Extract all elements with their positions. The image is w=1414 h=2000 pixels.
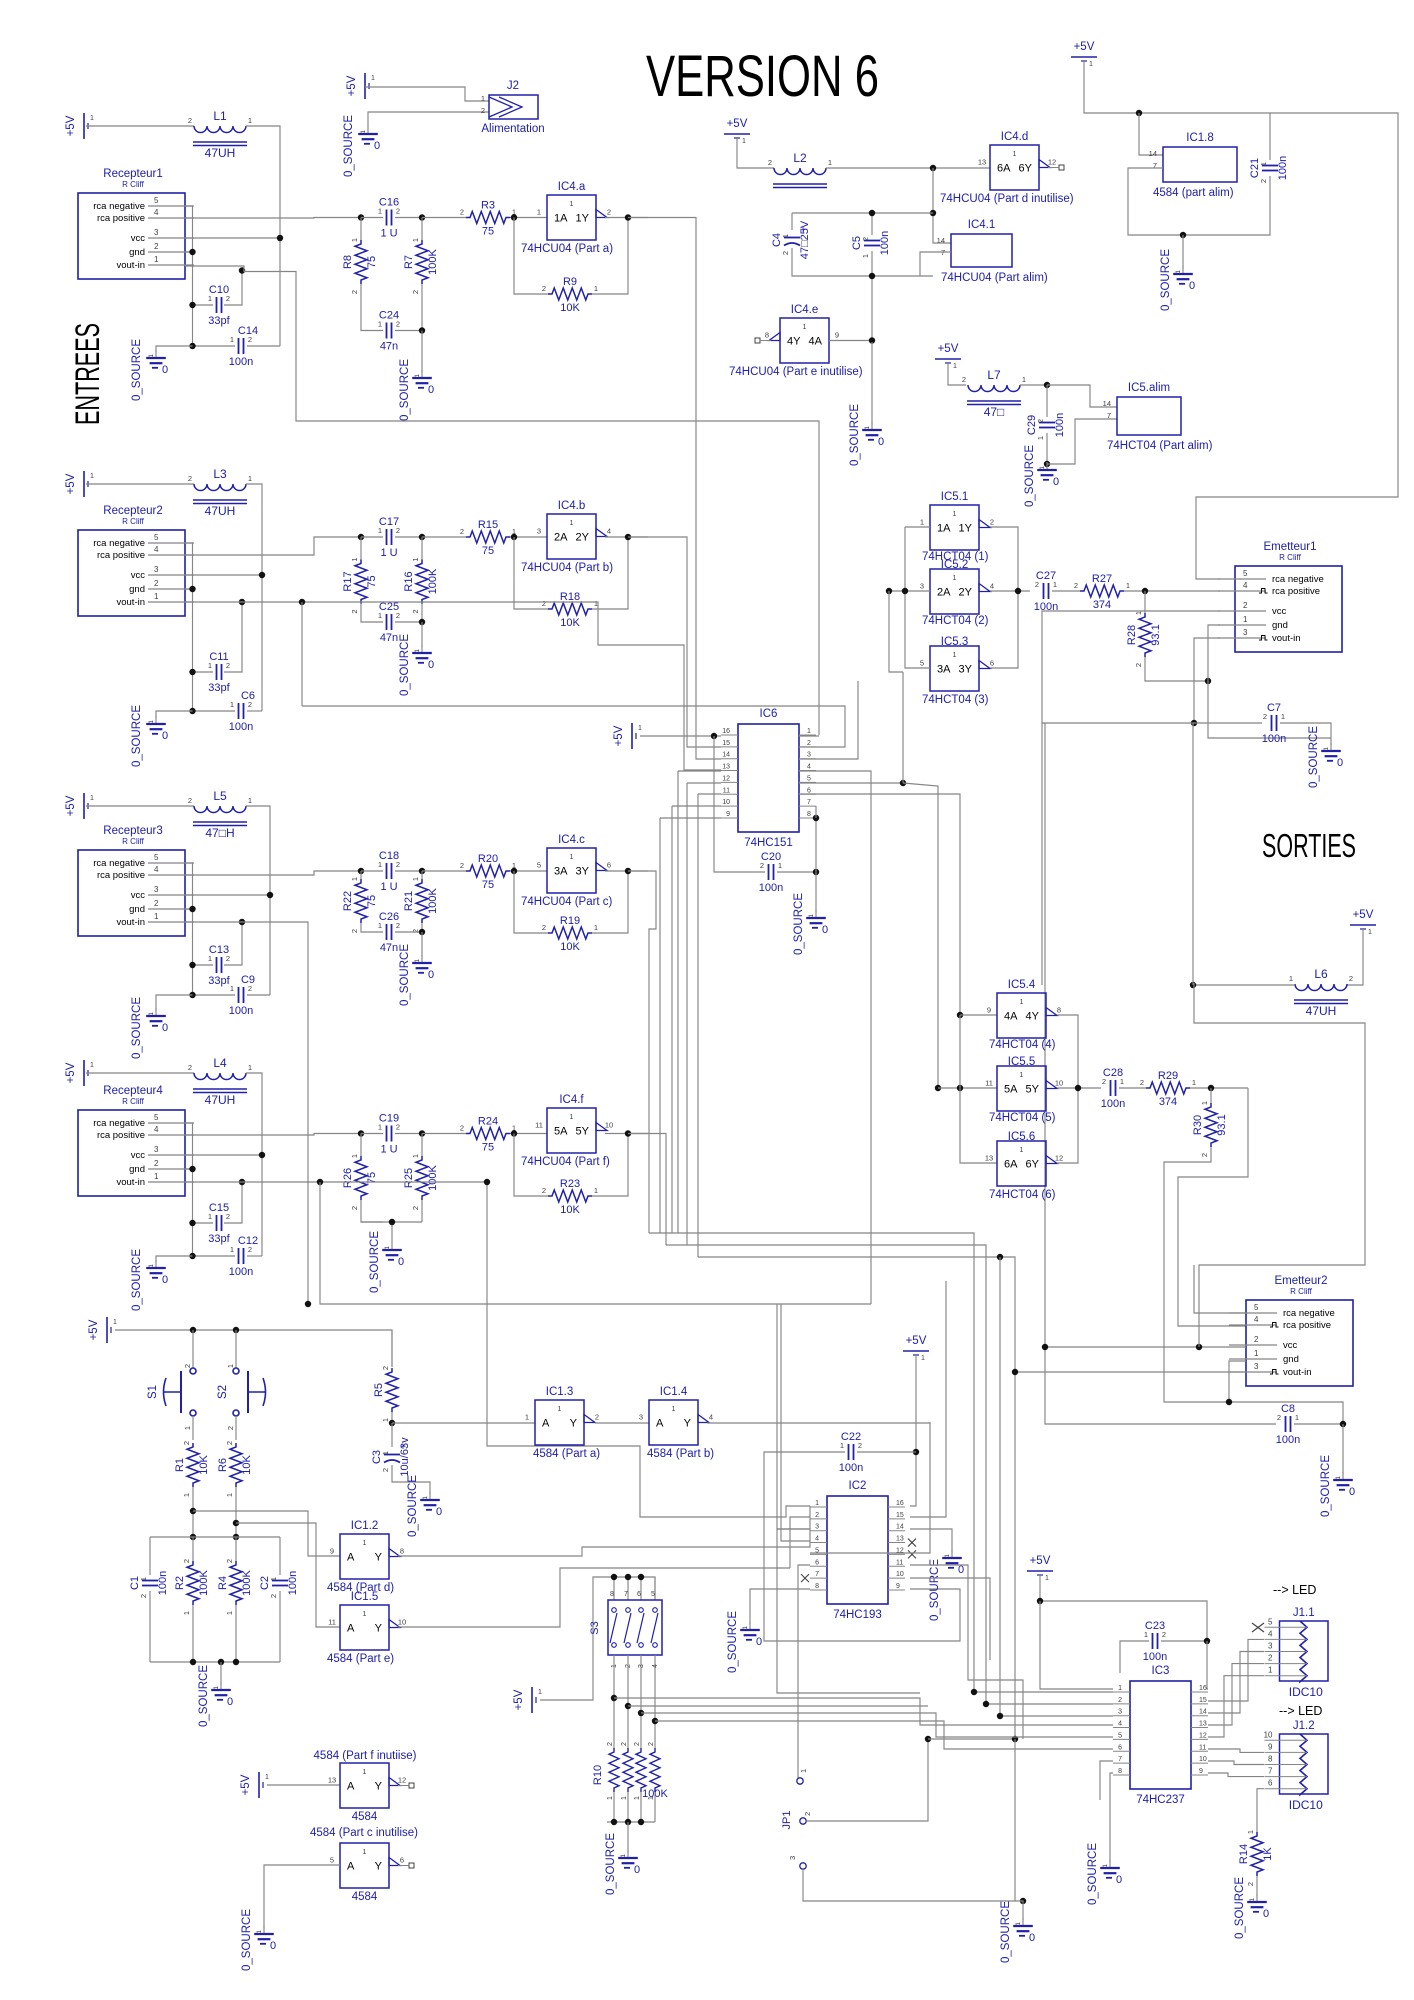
junction C17.1 bbox=[358, 534, 364, 540]
resistor R16 (100K) bbox=[403, 558, 439, 614]
svg-text:1: 1 bbox=[378, 1123, 382, 1132]
wire to ground ch1 bbox=[156, 346, 193, 352]
resistor R25 (100K) bbox=[403, 1154, 439, 1210]
svg-text:J2: J2 bbox=[507, 80, 519, 92]
svg-text:2: 2 bbox=[396, 1123, 400, 1132]
capacitor C17 (1 U) bbox=[378, 516, 400, 559]
resistor R8 (75) bbox=[342, 238, 378, 294]
svg-text:2: 2 bbox=[460, 208, 464, 217]
wire C4 top bbox=[791, 213, 793, 230]
svg-text:8: 8 bbox=[610, 1591, 614, 1598]
wire to ground ch2 bbox=[156, 711, 193, 718]
svg-text:R27: R27 bbox=[1092, 573, 1112, 585]
svg-text:2: 2 bbox=[1036, 419, 1045, 423]
wire top rail bbox=[792, 212, 933, 214]
wire ch4 signal bus bbox=[628, 1134, 666, 1246]
svg-text:100K: 100K bbox=[427, 248, 439, 274]
junction out ch3 bbox=[625, 868, 631, 874]
connector Emetteur2 (R Cliff emitter) bbox=[1229, 1275, 1353, 1386]
svg-text:6A: 6A bbox=[997, 163, 1011, 175]
svg-text:9: 9 bbox=[835, 331, 839, 340]
svg-text:0_SOURCE: 0_SOURCE bbox=[369, 1231, 381, 1293]
svg-text:R6: R6 bbox=[217, 1458, 229, 1472]
junction R28 bbox=[1142, 588, 1148, 594]
ground 0_SOURCE bbox=[399, 944, 434, 1006]
svg-text:2: 2 bbox=[154, 1159, 159, 1168]
junction vout ch1 bbox=[239, 267, 245, 273]
junction R30 bbox=[1208, 1085, 1214, 1091]
wire C22 to +5V bbox=[857, 1451, 916, 1453]
svg-text:6A: 6A bbox=[1004, 1159, 1018, 1171]
svg-text:3: 3 bbox=[807, 752, 811, 759]
svg-text:0_SOURCE: 0_SOURCE bbox=[399, 944, 411, 1006]
svg-text:2: 2 bbox=[1349, 974, 1353, 983]
svg-text:1: 1 bbox=[230, 700, 234, 709]
wire rca negative trunk bbox=[1196, 113, 1398, 579]
junction bbox=[638, 1819, 644, 1825]
svg-text:2: 2 bbox=[460, 527, 464, 536]
capacitor C7 (100n) bbox=[1262, 702, 1286, 745]
wire IC2 pin10 bbox=[910, 1578, 990, 1660]
IC IC1.8 bbox=[1149, 132, 1237, 199]
svg-text:2: 2 bbox=[248, 700, 252, 709]
wire C17 out bbox=[395, 536, 422, 538]
ground 0_SOURCE bbox=[399, 634, 434, 696]
capacitor C24 (47n) bbox=[378, 310, 400, 353]
junction C18.2 bbox=[419, 868, 425, 874]
wire to C12 bbox=[193, 1255, 236, 1257]
svg-text:1: 1 bbox=[1089, 61, 1093, 68]
svg-text:rca positive: rca positive bbox=[97, 870, 145, 881]
svg-text:7: 7 bbox=[624, 1591, 628, 1598]
svg-text:2: 2 bbox=[542, 923, 546, 932]
svg-text:11: 11 bbox=[985, 1079, 993, 1088]
svg-text:Emetteur1: Emetteur1 bbox=[1263, 541, 1316, 553]
gate IC1.2 bbox=[327, 1520, 404, 1594]
junction out ch4 bbox=[625, 1130, 631, 1136]
svg-text:10: 10 bbox=[896, 1571, 904, 1578]
svg-text:gnd: gnd bbox=[129, 584, 145, 595]
wire gnd rail ch4 bbox=[185, 1169, 193, 1256]
svg-text:2: 2 bbox=[381, 1366, 390, 1370]
+5V power bbox=[724, 118, 750, 145]
wire bus C to IC3 pin3 bbox=[1000, 1257, 1113, 1716]
junction C11 bbox=[189, 669, 195, 675]
wire IC3 pin10 to J1.2 pin8 bbox=[1208, 1761, 1264, 1765]
wire gnd rail ch2 bbox=[185, 589, 193, 711]
svg-text:100n: 100n bbox=[1101, 1098, 1125, 1110]
wire to IC1.8 pin14 bbox=[1139, 113, 1163, 155]
svg-text:2: 2 bbox=[154, 242, 159, 251]
svg-text:S2: S2 bbox=[217, 1385, 229, 1399]
svg-text:vout-in: vout-in bbox=[116, 597, 145, 608]
ground 0_SOURCE bbox=[1087, 1843, 1122, 1905]
svg-text:3A: 3A bbox=[937, 664, 951, 676]
inductor L7 (47□) bbox=[962, 368, 1026, 419]
svg-text:47n: 47n bbox=[380, 942, 398, 954]
IC IC6 (74HC151) bbox=[721, 708, 816, 849]
junction IC6 pin16 bbox=[711, 733, 717, 739]
svg-text:6Y: 6Y bbox=[1019, 163, 1033, 175]
svg-text:IC4.1: IC4.1 bbox=[968, 219, 996, 231]
svg-text:3: 3 bbox=[154, 885, 159, 894]
wire +5V to IC6 pin16 bbox=[640, 735, 721, 737]
wire C2 bottom bbox=[279, 1591, 281, 1662]
svg-text:2: 2 bbox=[396, 207, 400, 216]
svg-text:2: 2 bbox=[350, 929, 359, 933]
svg-text:1: 1 bbox=[634, 1796, 641, 1800]
svg-text:1: 1 bbox=[182, 1611, 191, 1615]
gate bbox=[328, 1763, 414, 1823]
svg-text:0: 0 bbox=[428, 384, 434, 396]
junction C5 bottom bbox=[869, 273, 875, 279]
wire C19 out bbox=[395, 1133, 422, 1135]
wire IC5.6 in bracket bbox=[960, 1015, 997, 1163]
wire IC6 pin2 trunk bbox=[302, 706, 845, 747]
svg-text:R28: R28 bbox=[1126, 625, 1138, 645]
wire bus v x678 bbox=[677, 771, 679, 1233]
w bbox=[627, 1792, 629, 1822]
svg-text:R21: R21 bbox=[403, 891, 415, 911]
svg-text:14: 14 bbox=[1149, 149, 1157, 158]
svg-text:5A: 5A bbox=[1004, 1084, 1018, 1096]
w bbox=[192, 1537, 194, 1561]
svg-text:5: 5 bbox=[807, 775, 811, 782]
junction C9 bbox=[189, 992, 195, 998]
wire IC6 pin9 bbox=[660, 817, 721, 819]
junction out ch2 bbox=[625, 534, 631, 540]
junction vout ch3 bbox=[239, 919, 245, 925]
svg-text:IC2: IC2 bbox=[849, 1480, 867, 1492]
svg-text:5: 5 bbox=[154, 1113, 159, 1122]
svg-text:7: 7 bbox=[1153, 161, 1157, 170]
svg-text:1: 1 bbox=[182, 1493, 191, 1497]
svg-text:4584 (Part e): 4584 (Part e) bbox=[327, 1653, 394, 1665]
svg-text:47UH: 47UH bbox=[205, 1093, 236, 1107]
wire C9 to rail bbox=[247, 994, 270, 996]
junction L7 bbox=[1044, 382, 1050, 388]
wire R16 bottom bbox=[421, 604, 423, 623]
svg-text:5: 5 bbox=[330, 1856, 334, 1865]
ground 0_SOURCE bbox=[131, 1249, 168, 1311]
svg-text:14: 14 bbox=[937, 236, 945, 245]
wire IC5.4 out bbox=[1057, 1015, 1078, 1088]
junction bbox=[957, 1085, 963, 1091]
wire to R18 bbox=[514, 537, 548, 609]
svg-text:3A: 3A bbox=[554, 866, 568, 878]
wire to R3 bbox=[422, 217, 466, 219]
svg-text:rca positive: rca positive bbox=[97, 550, 145, 561]
svg-text:1: 1 bbox=[248, 796, 252, 805]
wire C24 out bbox=[395, 330, 422, 332]
svg-text:1: 1 bbox=[378, 207, 382, 216]
svg-text:JP1: JP1 bbox=[781, 1811, 793, 1830]
wire IC3 pin9 to J1.2 pin7 bbox=[1208, 1773, 1264, 1777]
svg-text:1: 1 bbox=[350, 877, 359, 881]
svg-text:S3: S3 bbox=[589, 1621, 601, 1634]
wire gate out ch2 bbox=[605, 536, 648, 538]
junction C13 bbox=[189, 962, 195, 968]
svg-text:2: 2 bbox=[188, 796, 192, 805]
svg-text:IC6: IC6 bbox=[760, 708, 778, 720]
svg-text:5: 5 bbox=[154, 853, 159, 862]
svg-text:1: 1 bbox=[742, 138, 746, 145]
gate IC4.e bbox=[729, 304, 863, 378]
svg-text:1: 1 bbox=[248, 116, 252, 125]
wire to ground bbox=[421, 932, 423, 957]
svg-text:100n: 100n bbox=[229, 1266, 253, 1278]
svg-text:11: 11 bbox=[535, 1121, 543, 1130]
wire C25 out bbox=[395, 621, 422, 623]
junction inputs 2 bbox=[886, 588, 892, 594]
svg-text:3: 3 bbox=[154, 228, 159, 237]
svg-text:1: 1 bbox=[154, 255, 159, 264]
svg-text:0: 0 bbox=[374, 140, 380, 152]
resistor R27 (374) bbox=[1074, 573, 1130, 611]
svg-text:1: 1 bbox=[953, 511, 957, 518]
svg-text:+5V: +5V bbox=[346, 75, 358, 96]
svg-text:6: 6 bbox=[1268, 1779, 1273, 1788]
junction branch bbox=[652, 1718, 658, 1724]
junction C25 bbox=[419, 619, 425, 625]
svg-text:R25: R25 bbox=[403, 1168, 415, 1188]
svg-text:4: 4 bbox=[154, 208, 159, 217]
svg-text:1: 1 bbox=[1036, 436, 1045, 440]
svg-text:1: 1 bbox=[1053, 580, 1057, 589]
capacitor C2 (100n) bbox=[259, 1571, 299, 1598]
svg-text:R16: R16 bbox=[403, 571, 415, 591]
wire +5V to L6 bbox=[1347, 929, 1363, 985]
connector J1.2 (IDC10) bbox=[1264, 1720, 1328, 1812]
capacitor C23 (100n) bbox=[1143, 1620, 1167, 1663]
wire IC5.4 in bbox=[960, 1014, 997, 1016]
svg-text:6: 6 bbox=[807, 787, 811, 794]
+5V power bbox=[65, 471, 94, 497]
gate IC5.4 bbox=[987, 979, 1061, 1051]
svg-text:R23: R23 bbox=[560, 1178, 580, 1190]
svg-text:13: 13 bbox=[985, 1154, 993, 1163]
wire L5 pin1 rail bbox=[246, 806, 270, 995]
svg-text:1: 1 bbox=[1368, 929, 1372, 936]
inductor L1 (47UH) bbox=[188, 109, 252, 160]
svg-text:vcc: vcc bbox=[131, 1150, 146, 1161]
wire S3 branch 1 bbox=[614, 1697, 775, 1699]
svg-text:2: 2 bbox=[154, 899, 159, 908]
svg-text:5: 5 bbox=[1254, 1303, 1259, 1312]
svg-text:13: 13 bbox=[896, 1536, 904, 1543]
svg-text:0: 0 bbox=[756, 1636, 762, 1648]
capacitor C26 (47n) bbox=[378, 911, 400, 954]
wire C18 out bbox=[395, 870, 422, 872]
svg-text:7: 7 bbox=[815, 1571, 819, 1578]
svg-text:rca positive: rca positive bbox=[1272, 586, 1320, 597]
junction C20 bbox=[813, 869, 819, 875]
svg-text:4584: 4584 bbox=[352, 1891, 378, 1903]
svg-text:1: 1 bbox=[594, 1186, 598, 1195]
svg-text:5: 5 bbox=[1243, 569, 1248, 578]
resistor R9 (10K) bbox=[542, 276, 598, 314]
svg-text:0_SOURCE: 0_SOURCE bbox=[198, 1665, 210, 1727]
svg-text:L4: L4 bbox=[213, 1056, 227, 1070]
svg-text:2: 2 bbox=[861, 237, 870, 241]
svg-text:4: 4 bbox=[154, 545, 159, 554]
svg-text:9: 9 bbox=[330, 1547, 334, 1556]
svg-text:R29: R29 bbox=[1158, 1070, 1178, 1082]
svg-text:0_SOURCE: 0_SOURCE bbox=[131, 705, 143, 767]
wire to C3 bbox=[391, 1423, 393, 1447]
svg-text:IC5.5: IC5.5 bbox=[1008, 1056, 1036, 1068]
wire IC1.4 out bbox=[707, 1422, 930, 1424]
svg-text:4: 4 bbox=[1268, 1629, 1273, 1638]
wire C7 row bbox=[1042, 722, 1262, 724]
svg-text:0: 0 bbox=[398, 1256, 404, 1268]
svg-text:1: 1 bbox=[381, 1451, 390, 1455]
svg-text:1: 1 bbox=[411, 877, 420, 881]
svg-text:4584 (Part b): 4584 (Part b) bbox=[647, 1448, 714, 1460]
svg-text:6: 6 bbox=[607, 861, 611, 870]
svg-text:100K: 100K bbox=[241, 1569, 253, 1595]
wire IC1.3 to IC1.4 bbox=[595, 1422, 649, 1424]
svg-text:74HCU04 (Part f): 74HCU04 (Part f) bbox=[521, 1156, 610, 1168]
svg-text:2: 2 bbox=[188, 116, 192, 125]
junction C7 bbox=[1191, 720, 1197, 726]
svg-text:0_SOURCE: 0_SOURCE bbox=[929, 1559, 941, 1621]
ground 0_SOURCE bbox=[1024, 445, 1059, 507]
svg-text:4: 4 bbox=[1243, 581, 1248, 590]
junction out ch1 bbox=[625, 214, 631, 220]
svg-text:11: 11 bbox=[723, 787, 730, 794]
svg-text:+5V: +5V bbox=[65, 795, 77, 816]
wire C23 bbox=[1161, 1640, 1207, 1642]
svg-text:9: 9 bbox=[1199, 1768, 1203, 1775]
capacitor C14 (100n) bbox=[229, 325, 258, 368]
svg-text:IC4.d: IC4.d bbox=[1001, 131, 1029, 143]
wire Emetteur1 vout bbox=[1194, 638, 1220, 723]
gate IC1.4 bbox=[639, 1386, 714, 1460]
svg-text:74HCU04 (Part d inutilise): 74HCU04 (Part d inutilise) bbox=[940, 193, 1074, 205]
wire to S2 bbox=[235, 1330, 237, 1368]
wire J2 pin2 to ground bbox=[368, 112, 489, 127]
svg-text:2: 2 bbox=[1263, 712, 1267, 721]
resistor R17 (75) bbox=[342, 558, 378, 614]
wire C12 to rail bbox=[247, 1255, 262, 1257]
svg-text:47n: 47n bbox=[380, 341, 398, 353]
ground 0_SOURCE bbox=[399, 359, 434, 421]
svg-text:1: 1 bbox=[248, 474, 252, 483]
wire C2 top bbox=[279, 1537, 281, 1575]
svg-text:5: 5 bbox=[920, 659, 924, 668]
svg-text:1: 1 bbox=[350, 238, 359, 242]
wire S3 pin6 up bbox=[640, 1577, 642, 1600]
junction outputs 4-6 bbox=[1075, 1085, 1081, 1091]
svg-text:75: 75 bbox=[366, 575, 378, 587]
svg-text:1: 1 bbox=[381, 1418, 390, 1422]
svg-text:0: 0 bbox=[162, 364, 168, 376]
junction branch bbox=[625, 1703, 631, 1709]
wire J1.2 pin6 to R14 bbox=[1257, 1789, 1264, 1832]
svg-text:2: 2 bbox=[183, 1364, 192, 1368]
wire IC4.e pin9 bbox=[829, 340, 872, 342]
wire R19 out bbox=[592, 871, 628, 933]
svg-text:3: 3 bbox=[1118, 1709, 1122, 1716]
svg-text:1: 1 bbox=[154, 912, 159, 921]
junction S3 rail bbox=[638, 1574, 644, 1580]
svg-text:100n: 100n bbox=[229, 1005, 253, 1017]
svg-text:1: 1 bbox=[1200, 1101, 1209, 1105]
wire S3 to IC3 pin5 bbox=[775, 1713, 1113, 1737]
wire to C19 bbox=[361, 1133, 383, 1135]
junction C5 top bbox=[869, 210, 875, 216]
ground 0_SOURCE bbox=[1308, 726, 1343, 788]
svg-text:rca negative: rca negative bbox=[93, 1118, 145, 1129]
svg-text:100n: 100n bbox=[1262, 733, 1286, 745]
svg-text:0: 0 bbox=[162, 730, 168, 742]
svg-text:14: 14 bbox=[1103, 399, 1111, 408]
svg-text:R15: R15 bbox=[478, 519, 498, 531]
svg-text:C7: C7 bbox=[1267, 702, 1281, 714]
svg-text:8: 8 bbox=[1118, 1768, 1122, 1775]
svg-text:1 U: 1 U bbox=[380, 547, 397, 559]
junction bbox=[233, 1659, 239, 1665]
wire bus A to IC3 pin1 bbox=[649, 1233, 1113, 1692]
junction C10 bbox=[189, 302, 195, 308]
svg-text:1: 1 bbox=[672, 1406, 676, 1413]
svg-text:11: 11 bbox=[1199, 1744, 1206, 1751]
wire JP1 to bus bbox=[928, 1738, 1015, 1740]
wire L3 pin1 rail bbox=[246, 484, 262, 711]
wire IC1.8 pin7 loop bbox=[1128, 168, 1270, 235]
gate IC1.5 bbox=[327, 1591, 406, 1665]
junction vcc ch1 bbox=[277, 235, 283, 241]
svg-text:1: 1 bbox=[208, 661, 212, 670]
wire to R30 bbox=[1210, 1088, 1212, 1103]
+5V power bbox=[65, 113, 94, 139]
wire R26 to C28 bbox=[361, 1200, 383, 1222]
svg-text:2: 2 bbox=[595, 1413, 599, 1422]
svg-text:12: 12 bbox=[398, 1776, 406, 1785]
wire IC6 pin1 bbox=[799, 735, 819, 737]
junction IC4.e bbox=[869, 337, 875, 343]
wire +5V to J2 pin1 bbox=[365, 87, 489, 101]
svg-text:1: 1 bbox=[570, 1114, 574, 1121]
svg-text:1: 1 bbox=[594, 923, 598, 932]
svg-text:8: 8 bbox=[807, 811, 811, 818]
svg-text:1: 1 bbox=[1126, 581, 1130, 590]
svg-text:0_SOURCE: 0_SOURCE bbox=[343, 115, 355, 177]
wire gnd rail ch3 bbox=[185, 909, 193, 995]
svg-text:1: 1 bbox=[378, 611, 382, 620]
wire bus v x672 bbox=[671, 806, 673, 1233]
svg-text:IC1.4: IC1.4 bbox=[660, 1386, 688, 1398]
junction bus bbox=[1012, 1736, 1018, 1742]
wire rail to IC4.1 pin14 bbox=[933, 168, 951, 243]
wire +5V to IC3 pin1 rail bbox=[1040, 1601, 1113, 1689]
wire to C9 bbox=[193, 994, 236, 996]
capacitor C12 (100n) bbox=[229, 1235, 258, 1278]
wire ch1 signal to IC6 pin14 bbox=[628, 218, 721, 760]
svg-text:1Y: 1Y bbox=[576, 213, 590, 225]
svg-text:1A: 1A bbox=[554, 213, 568, 225]
resistor R19 (10K) bbox=[542, 915, 598, 953]
svg-text:vcc: vcc bbox=[1283, 1340, 1298, 1351]
svg-text:vout-in: vout-in bbox=[1283, 1367, 1312, 1378]
svg-text:1: 1 bbox=[1134, 611, 1143, 615]
wire R22 to C26 bbox=[361, 923, 383, 932]
svg-text:0_SOURCE: 0_SOURCE bbox=[793, 893, 805, 955]
wire to C17 bbox=[361, 536, 383, 538]
svg-text:374: 374 bbox=[1159, 1096, 1177, 1108]
wire to S1 bbox=[192, 1330, 194, 1368]
